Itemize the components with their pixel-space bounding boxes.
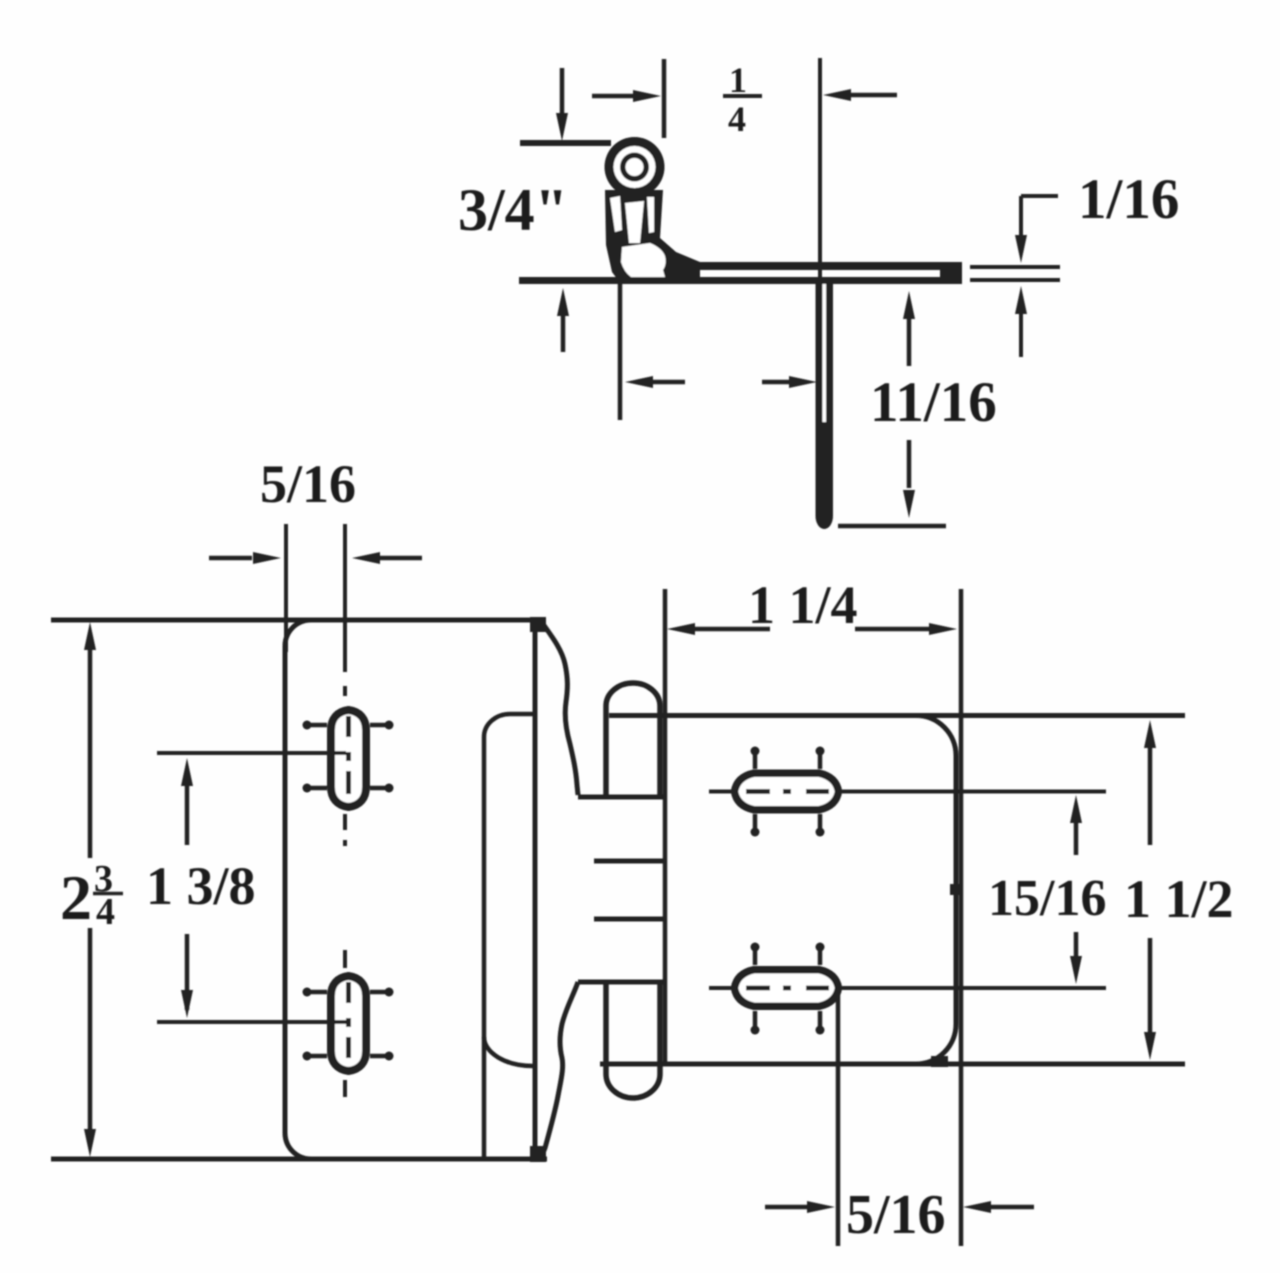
svg-text:4: 4	[728, 99, 746, 139]
leaf horizontal plate top edge	[690, 262, 962, 270]
vertical leaf plate	[816, 283, 834, 529]
upper knuckle dome	[606, 683, 660, 797]
dim 15/16 lower arrow (down)	[1074, 932, 1079, 962]
bend line bottom arc	[484, 1037, 533, 1066]
knuckle barrel circle	[605, 137, 665, 197]
bottom edge extension line	[51, 1157, 547, 1162]
lower slot (vertical)	[331, 976, 366, 1071]
slot centerline extension up	[343, 524, 347, 672]
dim 1/16 lower arrow (up)	[1015, 286, 1027, 314]
svg-text:11/16: 11/16	[870, 371, 997, 434]
frame wing bottom edge with extension	[600, 1062, 1185, 1067]
corner accents	[530, 617, 546, 632]
upper slot (horizontal)	[735, 773, 839, 810]
svg-text:2: 2	[60, 862, 92, 933]
extension line below foot	[618, 284, 623, 420]
dim 15/16 upper arrow (up)	[1070, 795, 1082, 823]
extension line / right wing left edge	[663, 589, 668, 1064]
dim 1/16 leader elbow and down arrow	[1019, 196, 1023, 238]
extension line vertical leaf bottom	[838, 524, 946, 529]
dim 2-3/4 lower arrow (down)	[88, 928, 93, 1136]
dim 1-1/4 left arrow (left-pointing)	[667, 623, 695, 635]
upper slot (vertical)	[331, 710, 366, 807]
bend line vertical	[482, 737, 487, 1158]
dim 1-1/4 right arrow (right-pointing)	[855, 627, 932, 632]
svg-text:15/16: 15/16	[988, 870, 1106, 927]
plate edge through dome	[609, 713, 665, 718]
dim 2-3/4 upper arrow (up)	[84, 622, 96, 650]
upper contour	[543, 624, 578, 795]
middle stripes	[594, 859, 663, 864]
unlabeled dim left arrow	[625, 376, 653, 388]
svg-text:3/4": 3/4"	[458, 177, 568, 243]
unlabeled dim right arrow	[762, 380, 792, 385]
dim 3/4 bottom arrow (up)	[557, 288, 569, 316]
knuckle neck and foot	[605, 190, 700, 283]
dim 11/16 lower arrow (down)	[907, 440, 912, 488]
dim 1-1/2 lower arrow (down)	[1148, 938, 1153, 1036]
extension line knuckle right edge	[662, 59, 667, 138]
dim 3/4 top arrow (down)	[560, 68, 565, 118]
extension line knuckle top	[520, 140, 611, 146]
svg-text:1 1/2: 1 1/2	[1124, 869, 1234, 929]
frame wing top edge with extension	[665, 713, 1185, 718]
plate right end cap	[940, 263, 962, 282]
bend line top arc	[484, 714, 534, 737]
svg-text:5/16: 5/16	[260, 454, 356, 514]
plate thickness extension lines right	[970, 265, 1060, 269]
dim 5/16 right arrow (left-pointing)	[352, 552, 380, 564]
lower slot (horizontal)	[735, 970, 839, 1007]
dim 1-3/8 upper arrow (up)	[181, 758, 193, 786]
dim 5/16 left arrow (right-pointing)	[209, 556, 252, 561]
dim 1/4 right arrow (left-pointing)	[823, 89, 851, 101]
dim 1-1/2 upper arrow (up)	[1144, 720, 1156, 748]
frame wing right side outline	[880, 716, 956, 1065]
leaf horizontal plate bottom edge (with left extension)	[519, 277, 962, 284]
extension line vertical leaf axis	[818, 58, 822, 283]
extension line plate left edge up	[284, 524, 288, 652]
upper step line	[578, 795, 663, 800]
corner accent bottom-right of frame wing	[931, 1056, 948, 1067]
dim 1/4 left arrow (right-pointing)	[592, 94, 640, 99]
leader line upper slot center	[157, 751, 342, 755]
door wing outline	[285, 620, 535, 1159]
lower knuckle dome	[606, 982, 660, 1098]
svg-text:4: 4	[96, 891, 115, 933]
leader upper slot	[842, 790, 1106, 794]
edge nub right side	[950, 884, 961, 895]
leader line lower slot center	[157, 1020, 342, 1024]
dim 11/16 upper arrow (up)	[903, 291, 915, 319]
svg-text:5/16: 5/16	[846, 1184, 946, 1246]
svg-text:1/16: 1/16	[1078, 168, 1179, 231]
svg-text:1 1/4: 1 1/4	[748, 575, 858, 635]
long extension line right	[959, 589, 964, 1246]
top edge extension line	[51, 618, 537, 623]
dim 5/16 bottom left arrow (right-pointing)	[765, 1205, 812, 1210]
dim 1-3/8 lower arrow (down)	[185, 934, 190, 1010]
lower contour	[543, 982, 578, 1153]
dim 5/16 bottom right arrow (left-pointing)	[963, 1201, 991, 1213]
svg-text:1 3/8: 1 3/8	[146, 856, 256, 916]
leader lower slot	[842, 986, 1106, 990]
extension line from lower slot down	[836, 995, 841, 1246]
lower step line	[578, 980, 663, 985]
